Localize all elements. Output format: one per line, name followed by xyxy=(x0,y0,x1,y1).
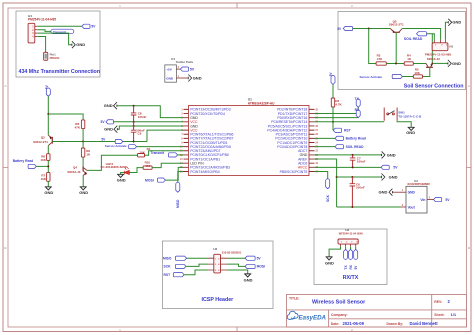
junction battery divider xyxy=(47,165,49,167)
svg-text:H2: H2 xyxy=(213,247,217,251)
wire SCK to H2 xyxy=(186,264,208,266)
svg-text:S9013-J3: S9013-J3 xyxy=(67,170,80,174)
junction C6 top xyxy=(351,176,353,178)
5V tag R3 xyxy=(331,76,335,85)
ground (RX/TX) xyxy=(326,257,333,260)
5V tag icsp xyxy=(245,256,255,260)
transmit tag U1 xyxy=(168,153,177,157)
net flag 5V (U4) xyxy=(180,67,188,71)
U4 pin 1 stub xyxy=(176,77,188,79)
wire GND flag2 to U1 GND pin5 xyxy=(118,126,184,129)
connector H4 xyxy=(28,23,35,43)
wire 5V rail down xyxy=(47,96,49,114)
wire Q1 base down to R5 xyxy=(423,67,430,76)
svg-text:REV:: REV: xyxy=(434,300,442,304)
wire U1 AVCC to 5V xyxy=(315,166,382,168)
wire C8 leads xyxy=(133,106,135,122)
svg-text:GND: GND xyxy=(79,190,88,195)
wire R9 to Q4 xyxy=(82,157,84,166)
resistor R9 xyxy=(81,148,84,157)
svg-text:Date:: Date: xyxy=(331,322,339,326)
svg-text:S9013-J3: S9013-J3 xyxy=(427,57,440,61)
junction Q2 base xyxy=(395,63,397,65)
battery read tag xyxy=(28,164,36,168)
mosi tag U1 xyxy=(157,178,165,182)
transistor Q1 xyxy=(426,63,433,67)
wire Q3 collector xyxy=(47,146,49,154)
ground (C6) xyxy=(382,174,385,181)
wire U1 GND pin21 to ground xyxy=(315,154,382,156)
wire C9 leads xyxy=(133,126,135,142)
resistor R2 xyxy=(376,62,386,65)
svg-text:GND: GND xyxy=(389,174,398,179)
transistor Q3 xyxy=(48,135,52,145)
ground (SW1) xyxy=(408,127,415,130)
ground (ICSP) xyxy=(244,274,251,277)
battery read tag right xyxy=(335,136,343,140)
wire Q2 collector to H5 pin2 xyxy=(402,29,440,40)
svg-text:Drawn By:: Drawn By: xyxy=(387,322,404,326)
svg-text:210-92-03GB01: 210-92-03GB01 xyxy=(222,250,242,254)
junction C8 top xyxy=(133,105,135,107)
5V tag U2 Vin xyxy=(434,198,442,202)
svg-text:Transmit: Transmit xyxy=(151,151,165,155)
wire VCC pin6 riser xyxy=(147,130,184,141)
wire 5V junction down to R2 xyxy=(369,29,376,64)
wire Q2 base down xyxy=(395,32,397,63)
svg-text:GND: GND xyxy=(104,127,113,132)
sck tag icsp xyxy=(175,264,186,268)
svg-text:MOSI: MOSI xyxy=(145,178,154,182)
svg-text:5V: 5V xyxy=(190,67,195,71)
svg-text:100nF: 100nF xyxy=(138,115,147,119)
wire Vout line xyxy=(337,206,401,208)
svg-text:5V: 5V xyxy=(91,25,96,29)
wire H5 pin3 to GND xyxy=(445,22,448,40)
wire H3 to 5V tag xyxy=(355,247,357,250)
svg-text:GND: GND xyxy=(387,152,396,157)
wire H2 to ground xyxy=(227,270,248,274)
capacitor C9 xyxy=(131,130,137,132)
resistor R10 xyxy=(143,166,152,169)
svg-text:GND: GND xyxy=(166,76,174,80)
ground (soil top) xyxy=(448,19,451,26)
svg-text:GND: GND xyxy=(104,103,113,108)
RST tag xyxy=(333,128,341,132)
svg-text:Wireless Soil Sensor: Wireless Soil Sensor xyxy=(312,300,366,306)
mosi tag icsp xyxy=(245,264,255,268)
TX tag stem xyxy=(357,107,359,113)
junction aref column xyxy=(336,176,338,178)
5V tag rxtx xyxy=(354,249,358,259)
svg-text:Sensor Activate: Sensor Activate xyxy=(360,75,383,79)
svg-text:47K: 47K xyxy=(75,125,81,129)
svg-text:Q4: Q4 xyxy=(73,166,77,170)
svg-text:S9012-2T1: S9012-2T1 xyxy=(389,23,404,27)
wire H4 pin4 to Pin1 xyxy=(37,37,45,53)
wire battery read xyxy=(36,165,48,167)
svg-text:TITLE:: TITLE: xyxy=(289,296,300,300)
ground (Q1) xyxy=(448,60,451,67)
svg-text:PCINT4/MISO/PB4: PCINT4/MISO/PB4 xyxy=(190,170,220,174)
svg-text:SCK: SCK xyxy=(164,265,172,269)
ground (divider) xyxy=(45,187,52,190)
wire R4 to Q1 xyxy=(413,63,426,65)
svg-text:SOIL READ: SOIL READ xyxy=(404,37,423,41)
wire Q4 collector xyxy=(87,155,138,170)
wire H2 to MOSI tag xyxy=(227,264,245,266)
svg-text:GND: GND xyxy=(406,130,415,135)
wire U1 RESET to SW1 xyxy=(315,121,385,123)
junction C7 top xyxy=(352,154,354,156)
junction C6 bottom xyxy=(351,206,353,208)
svg-text:C9: C9 xyxy=(138,132,142,136)
svg-text:MOSI: MOSI xyxy=(257,265,266,269)
wire R7 to ground xyxy=(47,181,49,187)
5V flag tag xyxy=(46,88,50,96)
svg-text:4.7K: 4.7K xyxy=(335,103,342,107)
wire U1 ADC2 to Battery Read tag xyxy=(315,137,336,139)
solder pads U4 xyxy=(165,65,177,82)
svg-text:H3: H3 xyxy=(345,228,349,232)
svg-text:GND: GND xyxy=(44,190,53,195)
svg-text:RST: RST xyxy=(164,273,171,277)
junction soil read xyxy=(431,63,433,65)
wire Q3 base xyxy=(52,141,83,143)
U2 GND pin xyxy=(393,191,406,193)
MCU U1 ATMEGA328P-AU body xyxy=(189,106,310,176)
svg-text:MISO: MISO xyxy=(176,199,180,208)
wire H4 pin1 to 5V xyxy=(37,25,82,27)
wire H4 pin3 to GND xyxy=(37,33,72,45)
sensor activate tag soil xyxy=(392,74,402,78)
wire 5V to Q2 emitter xyxy=(353,28,391,30)
svg-text:PM254V-11-03-H85: PM254V-11-03-H85 xyxy=(425,53,452,57)
svg-text:GND: GND xyxy=(325,260,334,265)
svg-text:FC-2012HRK-620D: FC-2012HRK-620D xyxy=(101,165,128,169)
wire node down to R9 xyxy=(82,142,84,149)
svg-text:SOIL READ: SOIL READ xyxy=(346,145,365,149)
switch SW1 xyxy=(384,108,397,121)
capacitor C7 xyxy=(350,158,356,160)
ground flag (U1 pin3) xyxy=(114,102,117,109)
svg-text:ICSP Header: ICSP Header xyxy=(202,297,234,303)
svg-text:RST: RST xyxy=(344,129,351,133)
MISO tag xyxy=(176,182,180,192)
junction C9 bottom xyxy=(133,141,135,143)
5V tag AVCC xyxy=(381,165,389,169)
svg-text:U4: U4 xyxy=(171,57,175,61)
RX/TX box xyxy=(314,229,387,285)
SCK tag xyxy=(326,179,330,189)
sensor activate tag U1 xyxy=(129,145,137,149)
wire C6 leads xyxy=(351,177,353,207)
svg-text:GND: GND xyxy=(117,177,126,182)
wire transmit tag to U1 pin12 xyxy=(178,154,184,156)
svg-text:GND: GND xyxy=(408,191,416,195)
wire LED cathode to ground xyxy=(121,173,125,175)
svg-text:5V: 5V xyxy=(445,198,450,202)
ground (H4) xyxy=(72,41,75,48)
rst tag icsp xyxy=(173,273,184,277)
svg-text:10K: 10K xyxy=(414,71,420,75)
ground (U1 right) xyxy=(382,151,385,158)
svg-text:H5: H5 xyxy=(449,45,453,49)
svg-text:Battery Read: Battery Read xyxy=(13,159,33,163)
connector H5 xyxy=(432,43,448,51)
wire 5V flag to U1 VCC pin4 xyxy=(114,121,184,123)
soil read tag xyxy=(417,32,427,36)
5V flag (U1 pin4) xyxy=(106,120,114,124)
svg-text:GND: GND xyxy=(76,42,85,47)
wire RST to H2 xyxy=(184,270,207,275)
U4 pin 2 stub xyxy=(176,68,180,70)
svg-text:Sensor Activate: Sensor Activate xyxy=(105,144,127,148)
434 Mhz Transmitter Connection box xyxy=(16,11,100,77)
svg-text:Solder Pads: Solder Pads xyxy=(176,60,194,64)
junction 5V rail xyxy=(47,113,49,115)
svg-text:RX: RX xyxy=(355,108,360,112)
svg-text:+5V: +5V xyxy=(166,67,173,71)
ground flag (U1 pin5) xyxy=(114,126,117,133)
wire SOIL READ to H5 pin1 xyxy=(427,34,435,40)
wire Q3 emitter xyxy=(47,114,49,135)
Soil Sensor Connection box xyxy=(338,12,466,90)
svg-text:Battery Read: Battery Read xyxy=(346,137,366,141)
connector Pin1 antenna pin xyxy=(44,52,48,60)
wire U1 pin16 to MISO tag xyxy=(178,171,184,184)
wire R2 to R4 xyxy=(386,63,404,65)
wire sensor activate to U1 pin10 xyxy=(137,146,184,148)
svg-text:TS-1187A-C-C-B: TS-1187A-C-C-B xyxy=(398,115,422,119)
junction reset/R3 xyxy=(332,121,334,123)
junction C8 bottom xyxy=(133,121,135,123)
svg-text:GND: GND xyxy=(452,20,461,25)
wire U1 TXD to TX tag xyxy=(315,113,359,115)
resistor R1 xyxy=(138,154,145,157)
wire H3 pin1 to ground xyxy=(329,247,340,257)
wire MOSI to U1 pin15 xyxy=(165,167,183,180)
miso tag icsp xyxy=(175,256,186,260)
RX tag rxtx xyxy=(349,249,353,259)
wire R8 to node xyxy=(82,129,84,142)
resistor R5 xyxy=(413,75,422,78)
soil read tag right xyxy=(335,145,343,149)
ICSP Header box xyxy=(162,241,273,309)
svg-text:Vin: Vin xyxy=(420,198,425,202)
svg-text:10K: 10K xyxy=(40,158,46,162)
wire H3 to TX tag xyxy=(345,247,347,250)
wire reset to RST tag xyxy=(332,122,334,130)
svg-text:Company:: Company: xyxy=(331,313,348,317)
wire MISO to H2 xyxy=(187,257,208,259)
wire U1 ADC0 to SOIL READ tag xyxy=(315,146,336,148)
svg-text:PIN1X1: PIN1X1 xyxy=(50,56,60,60)
svg-text:2021-06-09: 2021-06-09 xyxy=(343,321,365,326)
net flag 5V (H4) xyxy=(82,24,90,28)
U2 Vin pin xyxy=(427,199,434,201)
title block frame xyxy=(287,295,467,328)
net tag 5V soil xyxy=(343,26,352,30)
wire 5V rail to R8 xyxy=(48,114,83,120)
wire H2 to 5V tag xyxy=(227,257,245,259)
wire R6 to R7 xyxy=(47,160,49,172)
RX tag xyxy=(356,110,360,118)
transistor Q2 xyxy=(390,29,402,33)
svg-text:David Bennett: David Bennett xyxy=(410,321,439,326)
resistor R3 xyxy=(331,98,334,107)
wire gnd2 line xyxy=(337,176,382,178)
svg-text:47K: 47K xyxy=(377,57,383,61)
svg-text:GND: GND xyxy=(244,278,253,283)
resistor R6 xyxy=(47,154,50,161)
svg-text:RX/TX: RX/TX xyxy=(343,275,359,281)
wire U1 RXD to RX tag xyxy=(315,117,359,119)
wire Q4 emitter to ground xyxy=(82,175,84,187)
wire H4 pin2 to Transmit xyxy=(37,30,51,32)
TX tag rxtx xyxy=(344,249,348,259)
wire sensor activate to R5 xyxy=(402,76,413,78)
U1 pin stubs xyxy=(184,109,315,171)
capacitor C8 xyxy=(131,113,137,115)
wire C7 leads xyxy=(352,155,354,167)
svg-text:GND: GND xyxy=(379,190,388,195)
svg-text:XC6206P332MR: XC6206P332MR xyxy=(407,182,430,186)
U2 Vout pin xyxy=(401,206,407,208)
svg-text:Sheet:: Sheet: xyxy=(434,313,444,317)
junction 5V/R2 xyxy=(368,28,370,30)
junction C9 top xyxy=(133,125,135,127)
connector H3 xyxy=(338,239,358,244)
svg-text:PB5/SCK/PCINT5: PB5/SCK/PCINT5 xyxy=(280,170,308,174)
wire R3 to reset xyxy=(332,107,334,122)
svg-text:100nF: 100nF xyxy=(357,160,366,164)
svg-text:MISO: MISO xyxy=(163,256,172,260)
ground (U4) xyxy=(188,75,191,82)
svg-text:10K: 10K xyxy=(41,177,47,181)
svg-text:PM254V-11-04-H85: PM254V-11-04-H85 xyxy=(28,17,56,21)
wire Q1 emitter to GND xyxy=(433,62,448,64)
svg-text:5V: 5V xyxy=(393,166,398,170)
ground (Q4) xyxy=(80,187,87,190)
wire C8-C9 mid xyxy=(133,122,135,126)
net port Transmit (H4) xyxy=(51,29,74,34)
svg-text:10K: 10K xyxy=(139,151,145,155)
resistor R7 xyxy=(47,172,50,181)
svg-text:S9012-2T1: S9012-2T1 xyxy=(33,140,48,144)
resistor R8 xyxy=(81,120,84,129)
svg-text:SCK: SCK xyxy=(326,194,330,202)
LED LED1 xyxy=(124,167,129,175)
ground (U2) xyxy=(389,189,392,196)
ground (LED1) xyxy=(117,174,124,177)
connector H2 xyxy=(214,254,221,273)
wire R1 to U1 pin11 xyxy=(145,151,184,155)
capacitor C6 xyxy=(350,184,356,186)
TX tag xyxy=(356,99,360,107)
wire 5V to R3 xyxy=(332,85,334,99)
wire U1 SCK to tag xyxy=(315,171,328,180)
5V tag mid xyxy=(115,139,123,143)
wire GND flag to U1 GND pin3 xyxy=(117,106,183,118)
wire node to C9/VCC corner xyxy=(83,141,147,143)
svg-text:100nF: 100nF xyxy=(356,186,365,190)
svg-text:EasyEDA: EasyEDA xyxy=(299,315,327,322)
regulator U2 xyxy=(406,186,427,213)
svg-text:150: 150 xyxy=(145,164,150,168)
EasyEDA logo xyxy=(287,311,326,321)
resistor R4 xyxy=(404,62,413,65)
U1 pin labels xyxy=(180,108,319,174)
svg-text:434 Mhz Transmitter Connection: 434 Mhz Transmitter Connection xyxy=(19,69,101,75)
svg-text:1/1: 1/1 xyxy=(451,312,457,317)
wire U1 AREF down xyxy=(315,159,337,207)
wire R10 to U1 pin14 xyxy=(152,163,183,167)
svg-text:ATMEGA328P-AU: ATMEGA328P-AU xyxy=(248,101,275,105)
svg-text:Soil Sensor Connection: Soil Sensor Connection xyxy=(404,84,464,90)
svg-text:GND: GND xyxy=(452,61,461,66)
junction C7 bottom xyxy=(352,166,354,168)
svg-text:WF254V-11-04-0540: WF254V-11-04-0540 xyxy=(339,231,363,235)
wire SW1 to ground xyxy=(397,121,411,128)
wire H3 to RX tag xyxy=(350,247,352,250)
wire LED anode to R10 xyxy=(129,168,143,173)
transistor Q4 xyxy=(83,166,87,175)
svg-text:GND: GND xyxy=(193,75,202,80)
svg-text:Vout: Vout xyxy=(408,205,416,209)
junction R8/R9/base xyxy=(82,141,84,143)
wire SOIL READ to Q1 collector xyxy=(431,34,433,64)
